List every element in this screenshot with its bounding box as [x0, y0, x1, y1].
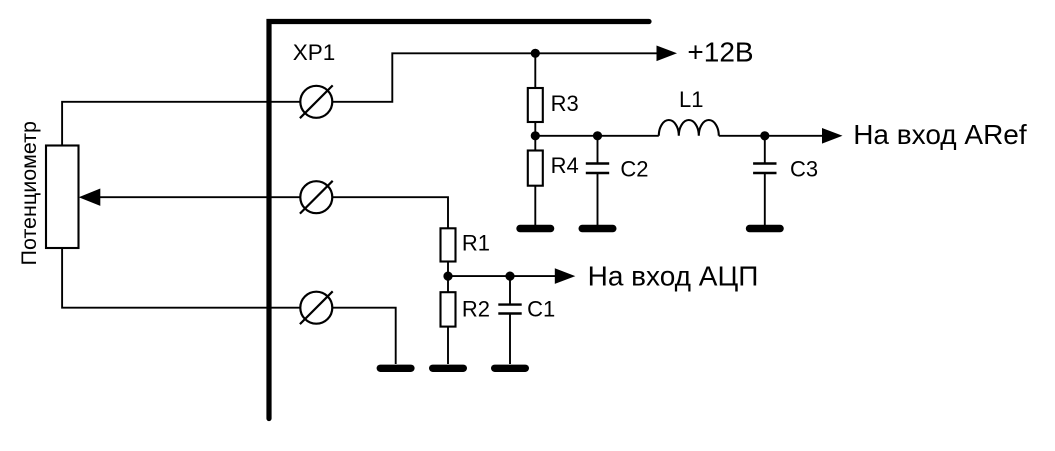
- ARef arrow: [822, 128, 843, 144]
- ground R2: [429, 365, 467, 372]
- connector pin 1: [300, 86, 332, 118]
- wire L1 to ARef arrow: [719, 135, 823, 137]
- capacitor C1: [498, 303, 521, 305]
- wire pot wiper to pin2: [100, 196, 300, 198]
- wire R3 to R4: [534, 122, 536, 151]
- connector pin 2: [300, 181, 332, 213]
- svg-text:R1: R1: [462, 231, 490, 256]
- node dot C2: [593, 131, 602, 140]
- wire C3 stem top: [764, 136, 766, 163]
- ADC arrow: [555, 268, 576, 284]
- potentiometer body: [46, 146, 79, 249]
- svg-text:C1: C1: [527, 297, 555, 322]
- resistor R2: [441, 292, 456, 326]
- wire C2 stem bottom: [597, 174, 599, 225]
- wire pin2 to R1: [332, 197, 448, 228]
- svg-text:На вход АЦП: На вход АЦП: [588, 261, 759, 292]
- wire pot bottom lead: [62, 248, 300, 308]
- wire pin3 to ground: [332, 308, 395, 364]
- svg-text:L1: L1: [679, 87, 703, 112]
- svg-text:R2: R2: [462, 297, 490, 322]
- node dot R1/R2: [443, 272, 452, 281]
- wire C3 stem bottom: [764, 174, 766, 225]
- wire R4 to ground: [534, 186, 536, 225]
- wire R2 to ground: [447, 327, 449, 364]
- wire C1 stem top: [509, 276, 511, 304]
- resistor R1: [441, 228, 456, 261]
- capacitor C3: [753, 162, 776, 164]
- svg-text:R3: R3: [551, 91, 579, 116]
- inductor L1: [659, 120, 719, 136]
- wire pin1 to +12V rail: [332, 53, 657, 102]
- ground C2: [579, 225, 617, 232]
- ground pin3: [377, 365, 415, 372]
- node dot R3/R4: [531, 131, 540, 140]
- node dot top rail: [531, 49, 540, 58]
- wire R1 to R2: [447, 262, 449, 293]
- resistor R3: [528, 88, 543, 122]
- wire C1 stem bottom: [509, 315, 511, 365]
- ADC rail wire: [448, 275, 555, 277]
- connector pin 3: [300, 292, 332, 324]
- +12V arrow: [657, 46, 678, 62]
- connector boundary XP1: [269, 22, 649, 419]
- capacitor C2: [586, 162, 609, 164]
- resistor R4: [528, 151, 543, 186]
- svg-text:Потенциометр: Потенциометр: [17, 121, 41, 266]
- ground C1: [491, 365, 529, 372]
- svg-text:R4: R4: [551, 153, 579, 178]
- node dot C3: [760, 131, 769, 140]
- ground R4: [516, 225, 554, 232]
- svg-text:C2: C2: [620, 157, 648, 182]
- svg-text:На вход ARef: На вход ARef: [853, 119, 1027, 150]
- potentiometer wiper arrow: [79, 189, 101, 206]
- ARef rail wire: [535, 135, 659, 137]
- svg-text:XP1: XP1: [293, 40, 336, 65]
- svg-text:C3: C3: [790, 157, 818, 182]
- ground C3: [746, 225, 784, 232]
- svg-text:+12В: +12В: [687, 37, 753, 68]
- wire +12V rail to R3: [534, 53, 536, 88]
- wire C2 stem top: [597, 136, 599, 163]
- node dot C1: [505, 272, 514, 281]
- wire pot top lead: [62, 102, 300, 146]
